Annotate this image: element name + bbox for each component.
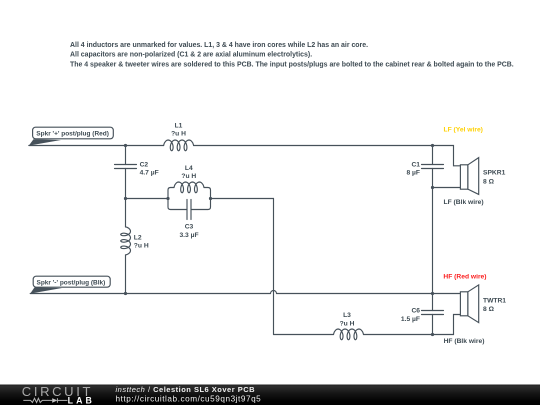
- svg-text:HF (Red wire): HF (Red wire): [443, 273, 486, 280]
- svg-text:8 µF: 8 µF: [406, 169, 420, 176]
- svg-text:8 Ω: 8 Ω: [483, 306, 495, 313]
- capacitor C2: [115, 146, 137, 199]
- svg-text:HF (Blk wire): HF (Blk wire): [444, 338, 485, 345]
- junction L2 bottom: [124, 292, 127, 295]
- capacitor C3: [187, 200, 191, 220]
- svg-text:Spkr '+' post/plug (Red): Spkr '+' post/plug (Red): [36, 131, 109, 138]
- inductor L4: [174, 182, 204, 193]
- inductor L2: [125, 199, 127, 227]
- svg-text:SPKR1: SPKR1: [483, 170, 506, 177]
- svg-text:4.7 µF: 4.7 µF: [140, 169, 159, 176]
- flag Spkr '+' post/plug (Red): [29, 127, 114, 145]
- junction C1 bottom: [431, 186, 434, 189]
- label L4: [181, 165, 196, 180]
- svg-text:3.3 µF: 3.3 µF: [179, 232, 198, 239]
- wire HF vertical drop: [273, 199, 275, 335]
- inductor L1: [164, 140, 194, 151]
- svg-text:L2: L2: [134, 235, 142, 242]
- wire to SPKR1 top: [433, 146, 461, 166]
- speaker TWTR1: [460, 285, 478, 323]
- L4/C3 parallel box left side: [168, 188, 187, 210]
- junction L4 box left: [166, 197, 169, 200]
- svg-text:The 4 speaker & tweeter wires: The 4 speaker & tweeter wires are solder…: [70, 61, 514, 68]
- junction L4 box right: [209, 197, 212, 200]
- wire hop over HF drop: [271, 291, 277, 294]
- svg-text:8 Ω: 8 Ω: [483, 178, 495, 185]
- svg-text:?u H: ?u H: [134, 243, 149, 250]
- label SPKR1: [483, 170, 506, 186]
- wire top rail right: [194, 145, 433, 147]
- label TWTR1: [483, 297, 506, 313]
- junction C2 bottom: [124, 197, 127, 200]
- inductor L3: [334, 329, 364, 340]
- svg-text:LF (Blk wire): LF (Blk wire): [444, 199, 484, 206]
- svg-text:Spkr '-' post/plug (Blk): Spkr '-' post/plug (Blk): [37, 279, 106, 286]
- capacitor C6: [422, 294, 444, 335]
- svg-text:C1: C1: [411, 161, 420, 168]
- label L1: [171, 123, 186, 138]
- flag Spkr '-' post/plug (Blk): [30, 276, 110, 293]
- svg-text:C2: C2: [140, 161, 149, 168]
- junction C6 bottom: [431, 333, 434, 336]
- svg-text:L4: L4: [185, 165, 193, 172]
- junction top rail / C2: [124, 144, 127, 147]
- junction minus rail / C6: [431, 292, 434, 295]
- label C3 value: [179, 224, 198, 239]
- svg-text:All 4 inductors are unmarked f: All 4 inductors are unmarked for values.…: [70, 42, 368, 49]
- svg-text:?u H: ?u H: [171, 131, 186, 138]
- svg-text:L3: L3: [343, 312, 351, 319]
- svg-text:L1: L1: [175, 123, 183, 130]
- label C1 value: [406, 161, 420, 176]
- wire mid rail to L4 box: [126, 198, 169, 200]
- svg-text:http://circuitlab.com/cu59qn3j: http://circuitlab.com/cu59qn3jt97q5: [116, 395, 262, 404]
- svg-text:C3: C3: [185, 224, 194, 231]
- wire minus rail to TWTR1 top: [433, 293, 461, 295]
- junction top rail / C1: [431, 144, 434, 147]
- logo resistor and diode glyph: [23, 398, 67, 403]
- svg-text:All capacitors are non-polariz: All capacitors are non-polarized (C1 & 2…: [70, 52, 312, 59]
- speaker SPKR1: [460, 158, 478, 195]
- svg-text:TWTR1: TWTR1: [483, 297, 506, 304]
- svg-text:?u H: ?u H: [340, 320, 355, 327]
- svg-text:insttech / Celestion SL6 Xover: insttech / Celestion SL6 Xover PCB: [116, 385, 256, 394]
- L4/C3 parallel box right side: [191, 188, 211, 210]
- wire to TWTR1 bottom: [433, 315, 461, 335]
- label C6 value: [401, 308, 420, 323]
- annotation note text: [70, 42, 514, 68]
- capacitor C1: [422, 146, 444, 188]
- wire bottom rail right: [364, 334, 433, 336]
- wire bottom rail left: [274, 334, 334, 336]
- svg-text:?u H: ?u H: [181, 173, 196, 180]
- label L3: [340, 312, 355, 327]
- svg-text:1.5 µF: 1.5 µF: [401, 316, 420, 323]
- label C2 value: [140, 161, 159, 176]
- wire mid rail right: [211, 198, 274, 200]
- svg-text:LF (Yel wire): LF (Yel wire): [444, 126, 483, 133]
- wire C1 bottom down to minus rail: [432, 188, 434, 294]
- svg-text:LAB: LAB: [68, 395, 95, 405]
- label L2: [134, 235, 149, 250]
- wire LF black to SPKR1 bottom: [433, 187, 461, 189]
- wire top rail left: [29, 145, 164, 147]
- wire minus rail with hop: [30, 293, 270, 295]
- svg-text:C6: C6: [411, 308, 420, 315]
